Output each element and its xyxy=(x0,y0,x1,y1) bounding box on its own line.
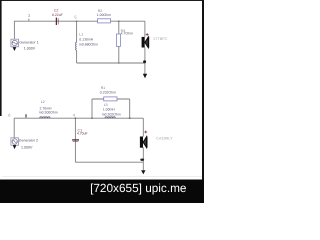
junction dot R3 top xyxy=(118,20,120,22)
capacitor C1 xyxy=(72,140,79,142)
junction dash bottom circuit xyxy=(140,159,144,161)
svg-text:0.22uF: 0.22uF xyxy=(52,13,63,17)
svg-text:Generator 1: Generator 1 xyxy=(19,40,38,44)
junction dot R1 right xyxy=(129,117,131,119)
capacitor C2 xyxy=(56,18,58,25)
speaker SP1 polarity mark xyxy=(146,33,149,36)
svg-text:CA15RLY: CA15RLY xyxy=(156,137,173,141)
junction dot R1 left xyxy=(91,117,93,119)
ground top circuit xyxy=(143,74,147,78)
wire bottom rail 2 xyxy=(75,161,143,163)
inductor L3 coil xyxy=(105,117,115,118)
junction dot R3 bottom xyxy=(118,62,120,64)
svg-text:m0.300Ohm: m0.300Ohm xyxy=(39,111,58,115)
speaker SP2 xyxy=(140,136,147,147)
svg-text:0.130mH: 0.130mH xyxy=(79,37,93,41)
node 3 tick xyxy=(28,19,29,21)
resistor R2 xyxy=(98,19,111,23)
svg-text:1.000V: 1.000V xyxy=(24,47,36,51)
svg-text:4.7Ohm: 4.7Ohm xyxy=(121,32,133,36)
generator 1 ground arrow xyxy=(13,47,17,51)
resistor R1 xyxy=(104,97,117,101)
svg-text:C2: C2 xyxy=(54,9,59,13)
generator U2 symbol xyxy=(11,138,19,145)
junction dot top circuit xyxy=(143,60,146,63)
svg-text:Generator 2: Generator 2 xyxy=(19,139,38,143)
wire R1 right drop xyxy=(129,99,131,118)
svg-text:L2: L2 xyxy=(41,100,45,104)
generator 2 ground arrow xyxy=(13,145,17,149)
svg-text:m0.680Ohm: m0.680Ohm xyxy=(79,42,98,46)
ground bottom circuit xyxy=(141,170,145,174)
svg-text:[720x655] upic.me: [720x655] upic.me xyxy=(90,181,187,195)
wire R1 left riser xyxy=(91,99,93,118)
svg-text:1.00Ohm: 1.00Ohm xyxy=(97,13,111,17)
inductor L2 coil xyxy=(40,117,50,118)
junction dot node 5 xyxy=(76,20,78,22)
svg-text:4.70uF: 4.70uF xyxy=(77,132,88,136)
wire ground1 stub xyxy=(144,63,146,74)
resistor R3 xyxy=(117,34,121,46)
wire ground2 stub xyxy=(142,162,144,170)
wire L1 branch vertical xyxy=(76,21,78,42)
inductor L1 coil xyxy=(76,42,77,50)
generator U1 symbol xyxy=(11,39,19,47)
wire top horizontal xyxy=(14,20,145,22)
svg-text:1.00mH: 1.00mH xyxy=(103,107,116,111)
speaker SP1 xyxy=(142,37,149,48)
wire generator1 riser xyxy=(13,21,15,39)
wire C1 branch xyxy=(74,118,76,162)
node tick on wire xyxy=(25,114,26,117)
svg-text:L1: L1 xyxy=(79,32,83,36)
speaker SP2 polarity mark xyxy=(144,131,147,134)
wire R3 branch vertical xyxy=(118,21,120,34)
svg-text:1.000V: 1.000V xyxy=(21,145,33,149)
wire generator2 riser xyxy=(13,118,15,138)
svg-text:27TBFC: 27TBFC xyxy=(153,37,167,41)
svg-text:m0.302Ohm: m0.302Ohm xyxy=(102,112,121,116)
svg-text:0.202Ohm: 0.202Ohm xyxy=(100,90,116,94)
wire bottom rail xyxy=(77,62,145,64)
junction dot node4 xyxy=(75,117,77,119)
wire top horizontal 2 xyxy=(14,117,143,119)
wire speaker1 drop xyxy=(144,21,146,37)
wire speaker2 drop xyxy=(142,118,144,136)
wire R1 top horizontal xyxy=(92,98,130,100)
